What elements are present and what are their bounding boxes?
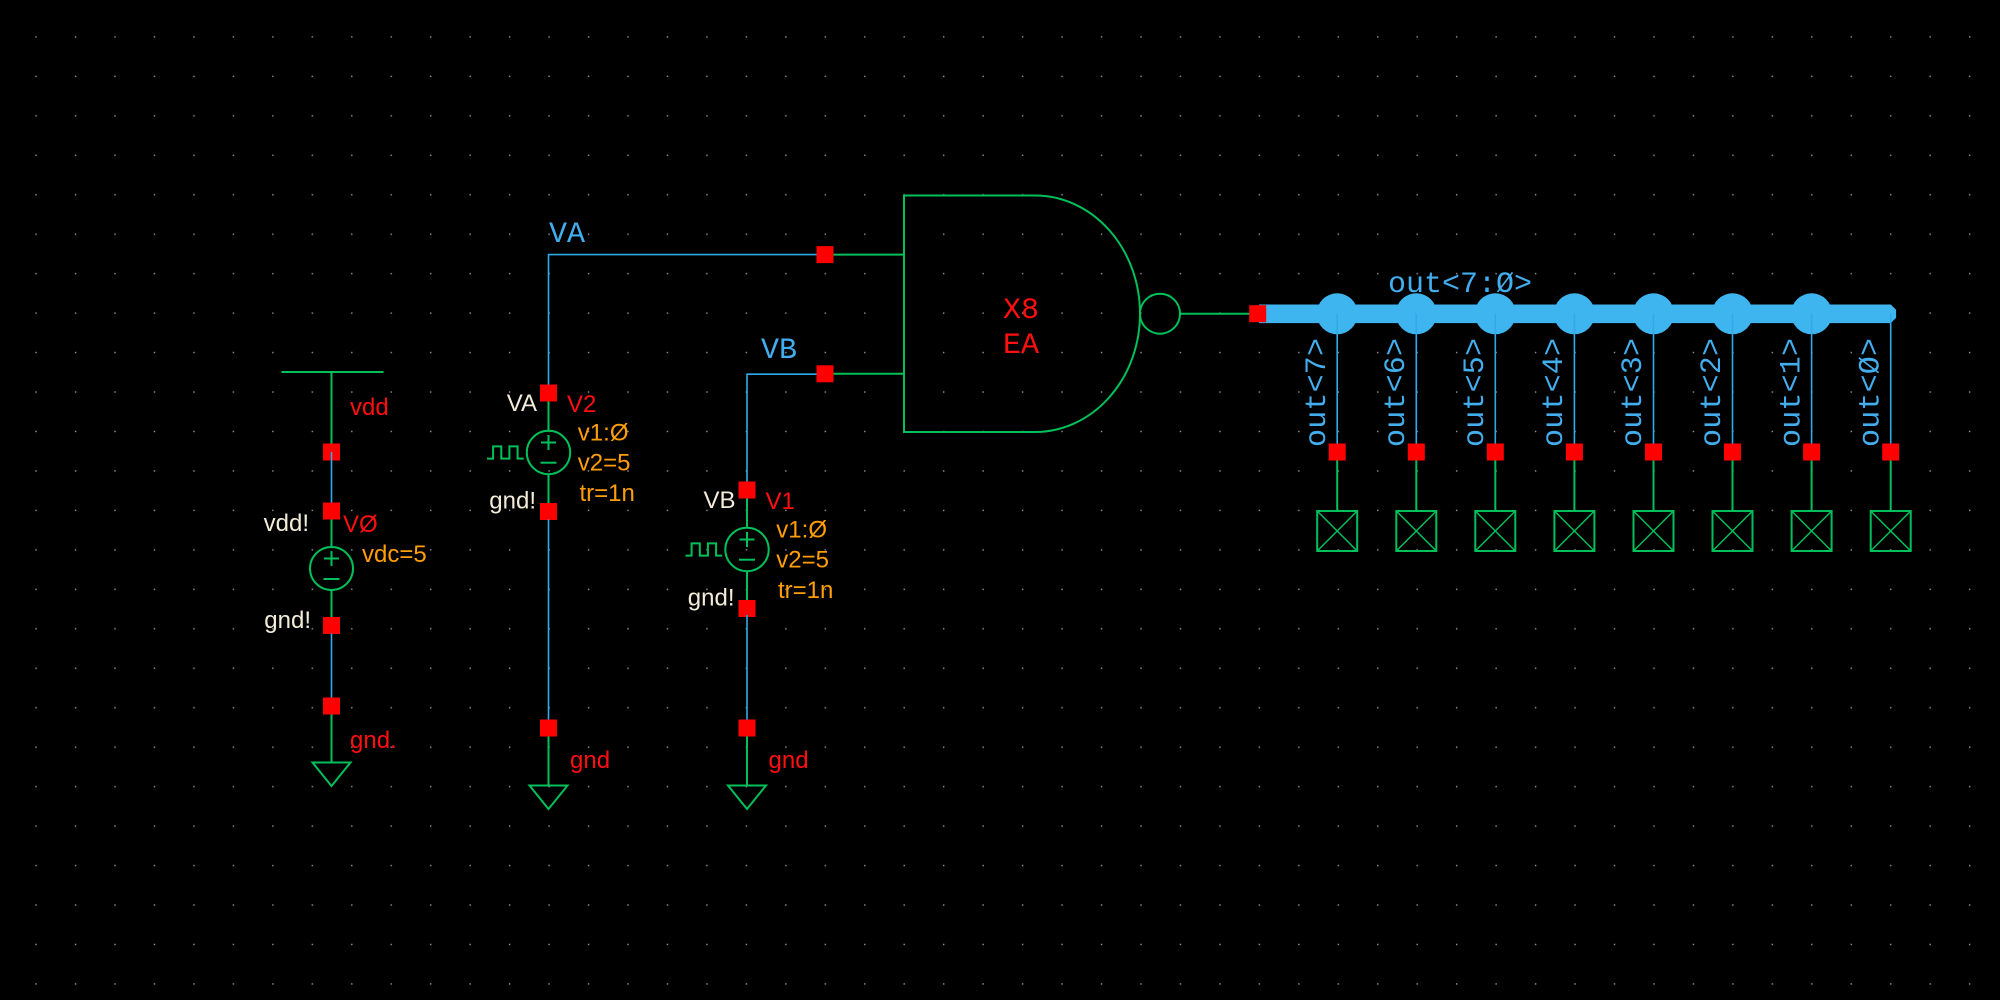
svg-text:V2: V2	[567, 391, 596, 418]
svg-text:out<7>: out<7>	[1301, 338, 1335, 447]
wire bus tap out<1>	[1811, 314, 1813, 444]
nand gate X8 input stub B	[833, 373, 904, 375]
svg-text:VA: VA	[549, 218, 585, 252]
tap pin square out<4>	[1566, 444, 1583, 461]
wire bus tap out<6>	[1415, 314, 1417, 444]
noConn symbol out<6>	[1396, 511, 1436, 551]
wire tap to noConn out<0>	[1890, 452, 1892, 511]
wire tap to noConn out<6>	[1415, 452, 1417, 511]
svg-text:gnd!: gnd!	[264, 607, 311, 634]
svg-text:gnd: gnd	[769, 747, 809, 774]
nand output pin square	[1249, 305, 1266, 322]
wire VA net	[549, 255, 818, 385]
noConn symbol out<0>	[1871, 511, 1911, 551]
V0 bottom pin square	[323, 617, 340, 634]
ground symbol (V2 branch)	[530, 736, 568, 809]
nand gate X8 body	[904, 196, 1140, 433]
svg-text:vdc=5: vdc=5	[362, 541, 427, 568]
V0 top pin square	[323, 503, 340, 520]
wire tap to noConn out<4>	[1573, 452, 1575, 511]
nand gate X8 output stub	[1180, 313, 1250, 315]
svg-text:X8: X8	[1003, 294, 1039, 328]
svg-text:VA: VA	[507, 390, 537, 417]
svg-text:VB: VB	[761, 334, 797, 368]
V1 top pin square	[739, 482, 756, 499]
svg-text:out<Ø>: out<Ø>	[1854, 338, 1888, 447]
svg-text:out<6>: out<6>	[1380, 338, 1414, 447]
gnd pin square (vdd branch)	[323, 698, 340, 715]
bus tap dot 1	[1791, 293, 1832, 334]
dc source V0	[310, 511, 353, 618]
pulse waveform glyph V2	[487, 446, 524, 458]
wire tap to noConn out<7>	[1336, 452, 1338, 511]
noConn symbol out<5>	[1475, 511, 1515, 551]
pulse source V2	[527, 401, 570, 504]
noConn symbol out<2>	[1713, 511, 1753, 551]
noConn symbol out<3>	[1634, 511, 1674, 551]
bus tap dot 3	[1633, 293, 1674, 334]
bus tap dot 7	[1317, 293, 1358, 334]
vdd pin square	[323, 444, 340, 461]
tap pin square out<3>	[1645, 444, 1662, 461]
V1 bottom pin square	[739, 600, 756, 617]
wire bus tap out<7>	[1336, 314, 1338, 444]
noConn symbol out<1>	[1792, 511, 1832, 551]
noConn symbol out<4>	[1554, 511, 1594, 551]
tap pin square out<7>	[1329, 444, 1346, 461]
pulse waveform glyph V1	[686, 543, 723, 555]
svg-text:vdd!: vdd!	[264, 510, 309, 537]
svg-text:gnd: gnd	[570, 747, 610, 774]
bus tap dot 6	[1396, 293, 1437, 334]
wire tap to noConn out<5>	[1494, 452, 1496, 511]
svg-text:out<5>: out<5>	[1459, 338, 1493, 447]
svg-text:out<3>: out<3>	[1617, 338, 1651, 447]
svg-text:VØ: VØ	[343, 511, 378, 538]
wire V1 to gnd	[746, 615, 748, 720]
wire tap to noConn out<3>	[1653, 452, 1655, 511]
vdd supply symbol	[282, 372, 384, 452]
svg-text:vdd: vdd	[350, 394, 389, 421]
svg-text:v1:Ø: v1:Ø	[578, 420, 629, 447]
nand gate X8 output bubble	[1140, 294, 1180, 334]
pulse source V1	[725, 498, 768, 601]
svg-text:VB: VB	[703, 487, 735, 514]
V2 bottom pin square	[540, 503, 557, 520]
svg-text:gnd!: gnd!	[489, 488, 536, 515]
bus tap dot 4	[1554, 293, 1595, 334]
svg-text:v2=5: v2=5	[578, 450, 631, 477]
wire V2 to gnd	[548, 520, 550, 721]
wire bus tap out<4>	[1573, 314, 1575, 444]
wire tap to noConn out<1>	[1811, 452, 1813, 511]
svg-text:out<2>: out<2>	[1696, 338, 1730, 447]
bus out<7:0>	[1259, 305, 1896, 324]
tap pin square out<1>	[1803, 444, 1820, 461]
tap pin square out<2>	[1724, 444, 1741, 461]
svg-text:out<7:Ø>: out<7:Ø>	[1388, 268, 1532, 302]
tap pin square out<6>	[1408, 444, 1425, 461]
ground symbol (V1 branch)	[728, 736, 766, 809]
svg-text:EA: EA	[1003, 329, 1039, 363]
tap pin square out<5>	[1487, 444, 1504, 461]
nand input pin square A	[817, 246, 834, 263]
wire bus tap out<0>	[1890, 314, 1892, 444]
gnd pin square (V2 branch)	[540, 720, 557, 737]
tap pin square out<0>	[1882, 444, 1899, 461]
wire V0 to gnd	[331, 634, 333, 707]
gnd pin square (V1 branch)	[739, 720, 756, 737]
svg-text:gnd.: gnd.	[350, 727, 397, 754]
wire vdd to V0	[331, 452, 333, 511]
svg-text:tr=1n: tr=1n	[778, 577, 833, 604]
V2 top pin square	[540, 385, 557, 402]
wire bus tap out<3>	[1653, 314, 1655, 444]
svg-text:gnd!: gnd!	[688, 585, 735, 612]
wire tap to noConn out<2>	[1732, 452, 1734, 511]
svg-text:tr=1n: tr=1n	[580, 480, 635, 507]
svg-text:v1:Ø: v1:Ø	[776, 517, 827, 544]
bus tap dot 5	[1475, 293, 1516, 334]
noConn symbol out<7>	[1317, 511, 1357, 551]
wire bus tap out<5>	[1494, 314, 1496, 444]
wire bus tap out<2>	[1732, 314, 1734, 444]
wire VB net	[747, 374, 817, 482]
nand input pin square B	[817, 365, 834, 382]
bus tap dot 2	[1712, 293, 1753, 334]
svg-text:V1: V1	[766, 488, 795, 515]
svg-text:v2=5: v2=5	[776, 547, 829, 574]
svg-text:out<1>: out<1>	[1775, 338, 1809, 447]
svg-text:out<4>: out<4>	[1538, 338, 1572, 447]
ground symbol (vdd branch)	[313, 714, 351, 786]
nand gate X8 input stub A	[833, 254, 904, 256]
